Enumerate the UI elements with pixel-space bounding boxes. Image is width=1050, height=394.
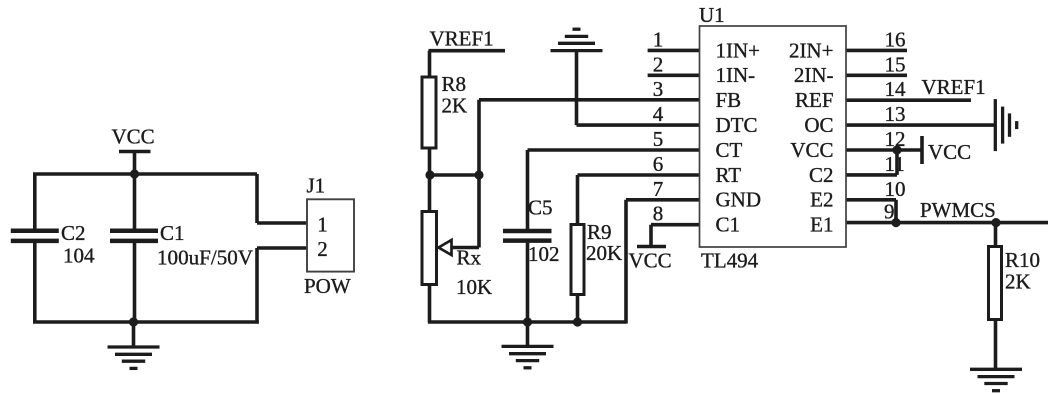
svg-text:GND: GND [716, 188, 762, 212]
svg-text:7: 7 [653, 177, 664, 201]
svg-text:C2: C2 [809, 163, 834, 187]
svg-text:2: 2 [653, 52, 664, 76]
svg-text:OC: OC [804, 113, 833, 137]
svg-text:12: 12 [885, 127, 906, 151]
svg-text:E2: E2 [810, 188, 833, 212]
svg-text:2: 2 [317, 237, 328, 261]
svg-text:6: 6 [653, 152, 664, 176]
svg-text:VREF1: VREF1 [430, 27, 494, 51]
svg-text:16: 16 [885, 27, 906, 51]
svg-text:E1: E1 [810, 213, 833, 237]
svg-text:1IN+: 1IN+ [716, 38, 761, 62]
svg-text:REF: REF [795, 88, 834, 112]
svg-text:20K: 20K [586, 241, 622, 265]
svg-text:102: 102 [528, 242, 560, 266]
svg-text:DTC: DTC [716, 113, 758, 137]
svg-text:R10: R10 [1005, 248, 1040, 272]
svg-text:100uF/50V: 100uF/50V [157, 246, 253, 270]
svg-text:14: 14 [885, 77, 907, 101]
svg-text:10: 10 [885, 177, 906, 201]
svg-text:Rx: Rx [457, 246, 482, 270]
svg-text:1: 1 [653, 27, 664, 51]
svg-text:11: 11 [885, 152, 905, 176]
svg-text:C5: C5 [528, 196, 553, 220]
svg-text:8: 8 [653, 202, 664, 226]
svg-text:C1: C1 [160, 221, 185, 245]
svg-text:2K: 2K [442, 94, 468, 118]
svg-text:3: 3 [653, 77, 664, 101]
svg-text:PWMCS: PWMCS [920, 198, 996, 222]
svg-text:13: 13 [885, 102, 906, 126]
svg-text:104: 104 [63, 244, 95, 268]
svg-text:9: 9 [884, 200, 895, 224]
svg-text:RT: RT [716, 163, 742, 187]
svg-text:2IN-: 2IN- [794, 63, 834, 87]
svg-text:R8: R8 [442, 72, 467, 96]
svg-text:FB: FB [716, 88, 742, 112]
svg-text:TL494: TL494 [701, 249, 759, 273]
svg-text:1: 1 [317, 213, 328, 237]
svg-text:VCC: VCC [790, 138, 833, 162]
svg-text:1IN-: 1IN- [716, 63, 756, 87]
svg-text:15: 15 [885, 52, 906, 76]
svg-text:U1: U1 [699, 3, 725, 27]
svg-text:2K: 2K [1005, 270, 1031, 294]
svg-text:C1: C1 [716, 213, 741, 237]
svg-text:POW: POW [304, 274, 351, 298]
svg-text:VCC: VCC [629, 249, 672, 273]
svg-text:VCC: VCC [112, 125, 155, 149]
svg-text:J1: J1 [307, 174, 326, 198]
svg-text:4: 4 [653, 102, 664, 126]
svg-text:5: 5 [653, 127, 664, 151]
svg-text:2IN+: 2IN+ [789, 38, 834, 62]
svg-text:VCC: VCC [928, 140, 971, 164]
svg-text:CT: CT [716, 138, 743, 162]
svg-text:VREF1: VREF1 [922, 75, 986, 99]
svg-text:10K: 10K [456, 275, 492, 299]
svg-text:C2: C2 [61, 221, 86, 245]
